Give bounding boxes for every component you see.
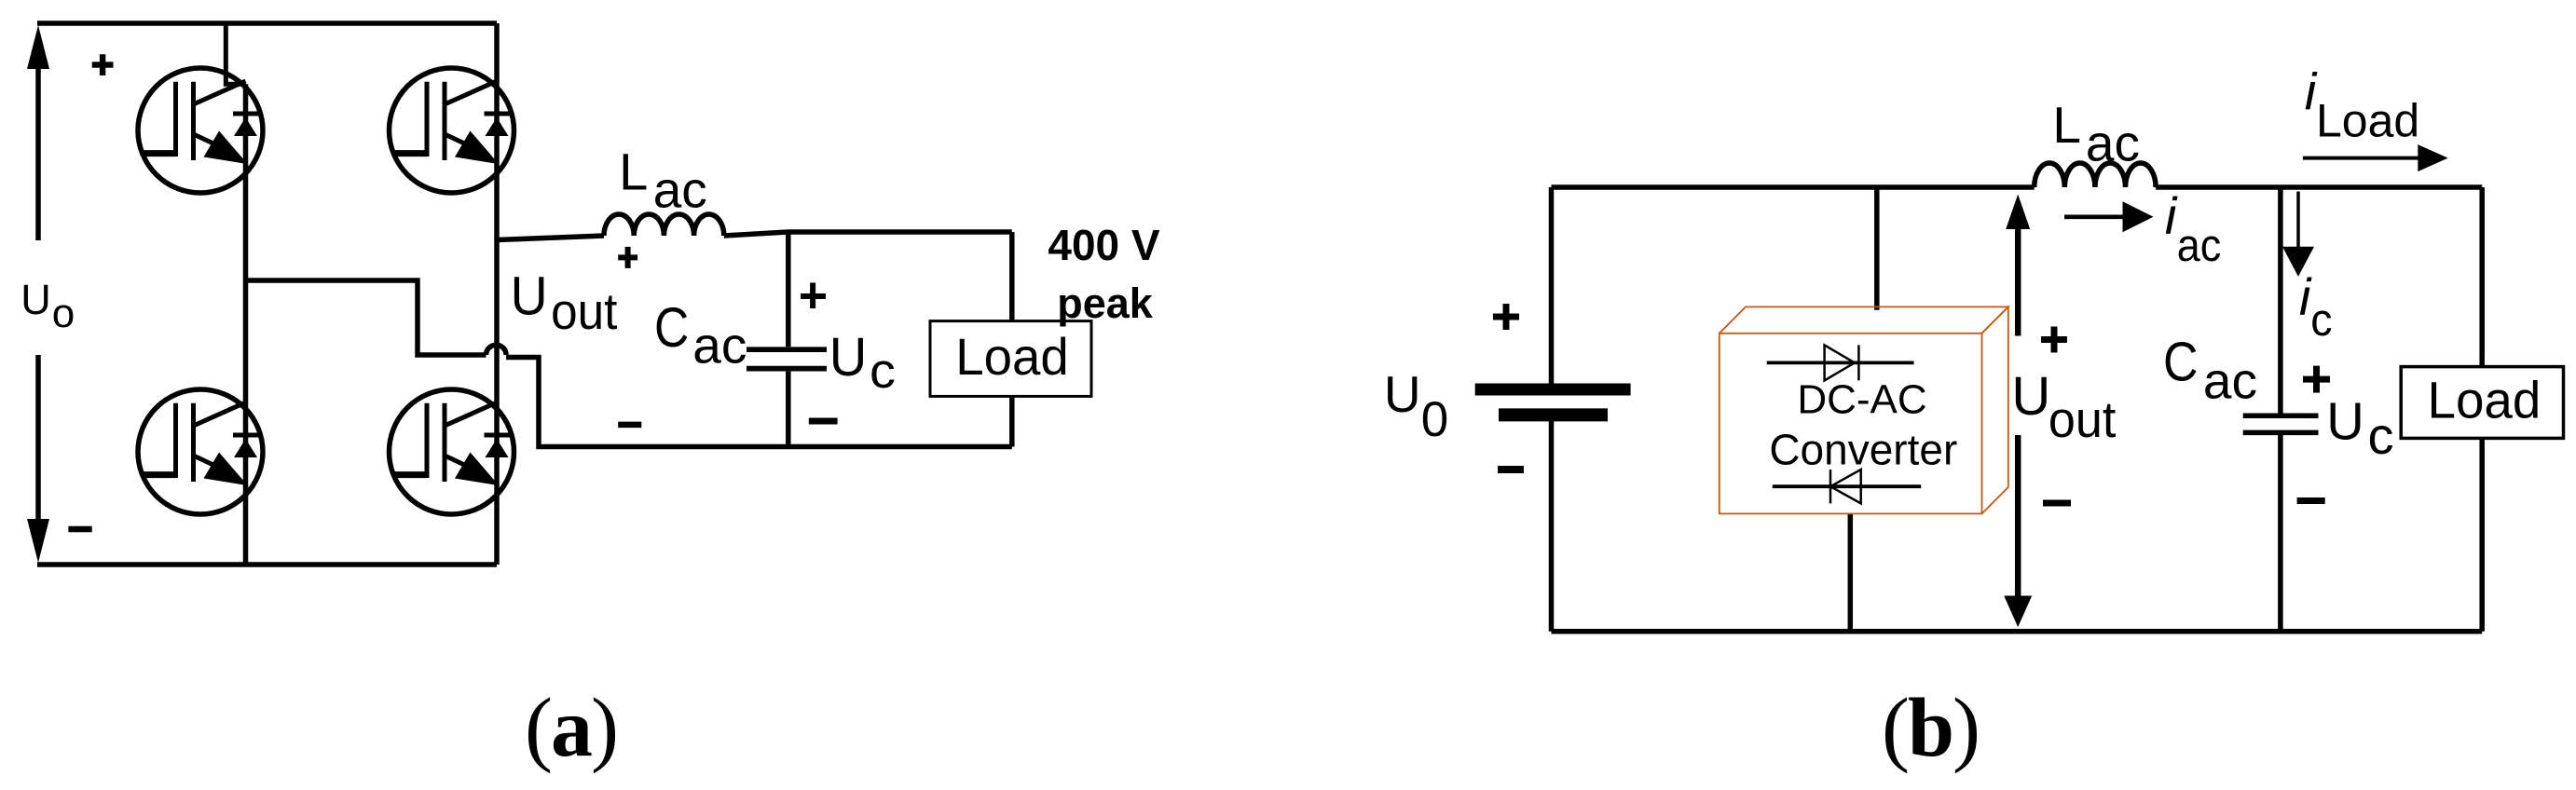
label Lac (b) [2052,96,2081,154]
svg-text:c: c [870,343,896,398]
capacitor C1 Cac plates (a) [747,347,827,352]
svg-text:ac: ac [2177,219,2221,270]
transistor Q4 [390,389,514,514]
svg-text:U: U [2011,366,2050,427]
svg-text:U: U [21,276,51,323]
wire: capacitor branch upper (b) [2278,187,2283,414]
converter box front face [1720,334,1982,514]
wire: top dc bus (a) [37,20,497,26]
label i_c [2299,267,2312,326]
label Uc (a) [829,327,868,388]
label Load (b) [2428,371,2542,429]
wire: load right branch lower (b) [2479,438,2485,631]
plus sign battery [1493,304,1519,330]
svg-text:ac: ac [692,317,747,375]
svg-text:(a): (a) [525,682,617,774]
svg-text:Load: Load [2316,95,2419,147]
minus sign capacitor (b) [2297,497,2325,504]
wire: bottom dc bus (a) [37,562,497,567]
wire: top bus after inductor (b) [2156,184,2482,190]
load box (a) [930,321,1091,397]
label i_Load [2305,62,2318,121]
label Cac (a) [654,295,689,359]
plus sign dc top (a) [92,54,114,75]
svg-text:ac: ac [653,160,707,218]
converter box 3d top face [1720,306,2008,513]
diode D1 inside converter (right pointing) [1767,345,1914,380]
minus sign battery [1498,466,1524,473]
wire: output minus path from left leg midpoint [246,280,486,355]
source arrow Uo [27,25,49,563]
battery U0 plates [1475,384,1631,396]
wire: converter bottom stub [1848,513,1854,631]
svg-text:ac: ac [2203,351,2257,409]
wire: top bus (b) [1552,184,2035,190]
minus sign capacitor (a) [809,418,838,425]
transistor Q3 [138,389,263,514]
svg-text:L: L [2052,96,2081,154]
svg-text:C: C [2163,332,2199,393]
svg-text:c: c [2310,295,2332,346]
label Load (a) [955,327,1068,386]
svg-text:400 V: 400 V [1048,221,1160,269]
wire: converter top stub [1874,187,1880,310]
svg-text:0: 0 [1421,392,1448,447]
svg-text:Load: Load [955,327,1068,386]
transistor Q2 [390,68,514,193]
wire: capacitor branch lower (b) [2278,435,2283,632]
inductor L1 Lac (a) [604,214,724,236]
label Cac (b) [2163,332,2199,393]
svg-text:U: U [2326,391,2364,451]
wire: left branch below battery [1549,421,1555,632]
svg-text:U: U [1384,365,1421,423]
wire: output plus from right leg to inductor [497,236,604,240]
label U0 [1384,365,1421,423]
arrow i_c [2282,192,2314,277]
minus sign Uout (b) [2043,500,2071,507]
diode D2 inside converter (left pointing) [1773,470,1921,503]
arrow Uout (b) double headed [2004,195,2032,628]
svg-text:out: out [551,283,617,340]
svg-text:Converter: Converter [1769,425,1957,473]
capacitor C2 Cac plates (b) [2243,413,2319,418]
plus sign output (a) [618,247,637,268]
plus sign capacitor (b) [2303,366,2330,393]
svg-text:(b): (b) [1882,682,1979,774]
wire: load right branch lower (a) [1009,396,1015,447]
load box (b) [2401,367,2563,439]
svg-text:c: c [2368,406,2394,465]
converter box 3d side face [1982,306,2008,513]
wire: load right branch upper (b) [2479,187,2485,367]
inductor L2 Lac (b) [2035,163,2156,187]
svg-text:DC-AC: DC-AC [1797,376,1926,422]
label Uout (b) [2011,366,2050,427]
svg-text:ac: ac [2086,115,2140,172]
label Uc (b) [2326,391,2364,451]
plus sign Uout (b) [2041,327,2067,353]
wire hop: crossover over right leg rail [486,345,507,355]
label Uo [21,276,51,323]
wire: capacitor branch lower (a) [786,372,791,447]
wire: Q1 collector entry jog [226,23,245,84]
wire: capacitor branch upper (a) [786,232,791,347]
arrow i_ac [2064,201,2154,232]
minus sign output (a) [618,422,641,429]
wire: load right branch upper (a) [1009,232,1015,321]
wire: left bridge leg rail [243,84,249,565]
svg-text:i: i [2165,186,2178,245]
transistor Q1 [138,68,263,193]
svg-text:U: U [511,266,548,326]
label i_ac [2165,186,2178,245]
label Lac (a) [619,142,648,200]
wire: left branch above battery [1549,187,1555,384]
svg-text:U: U [829,327,868,388]
plus sign capacitor (a) [801,283,826,309]
svg-text:o: o [52,291,75,336]
wire: inductor to capacitor and load top [724,232,1012,236]
minus sign dc bottom (a) [68,526,91,533]
svg-text:L: L [619,142,648,200]
wire: right bridge leg rail [494,23,500,565]
svg-text:peak: peak [1057,279,1154,327]
svg-text:C: C [654,295,689,359]
wire: output minus path after hop [506,358,1012,447]
label Uout (a) [511,266,548,326]
arrow i_Load [2303,144,2448,171]
wire: bottom bus (b) [1552,629,2483,634]
svg-text:out: out [2048,392,2117,449]
svg-text:Load: Load [2428,371,2542,429]
